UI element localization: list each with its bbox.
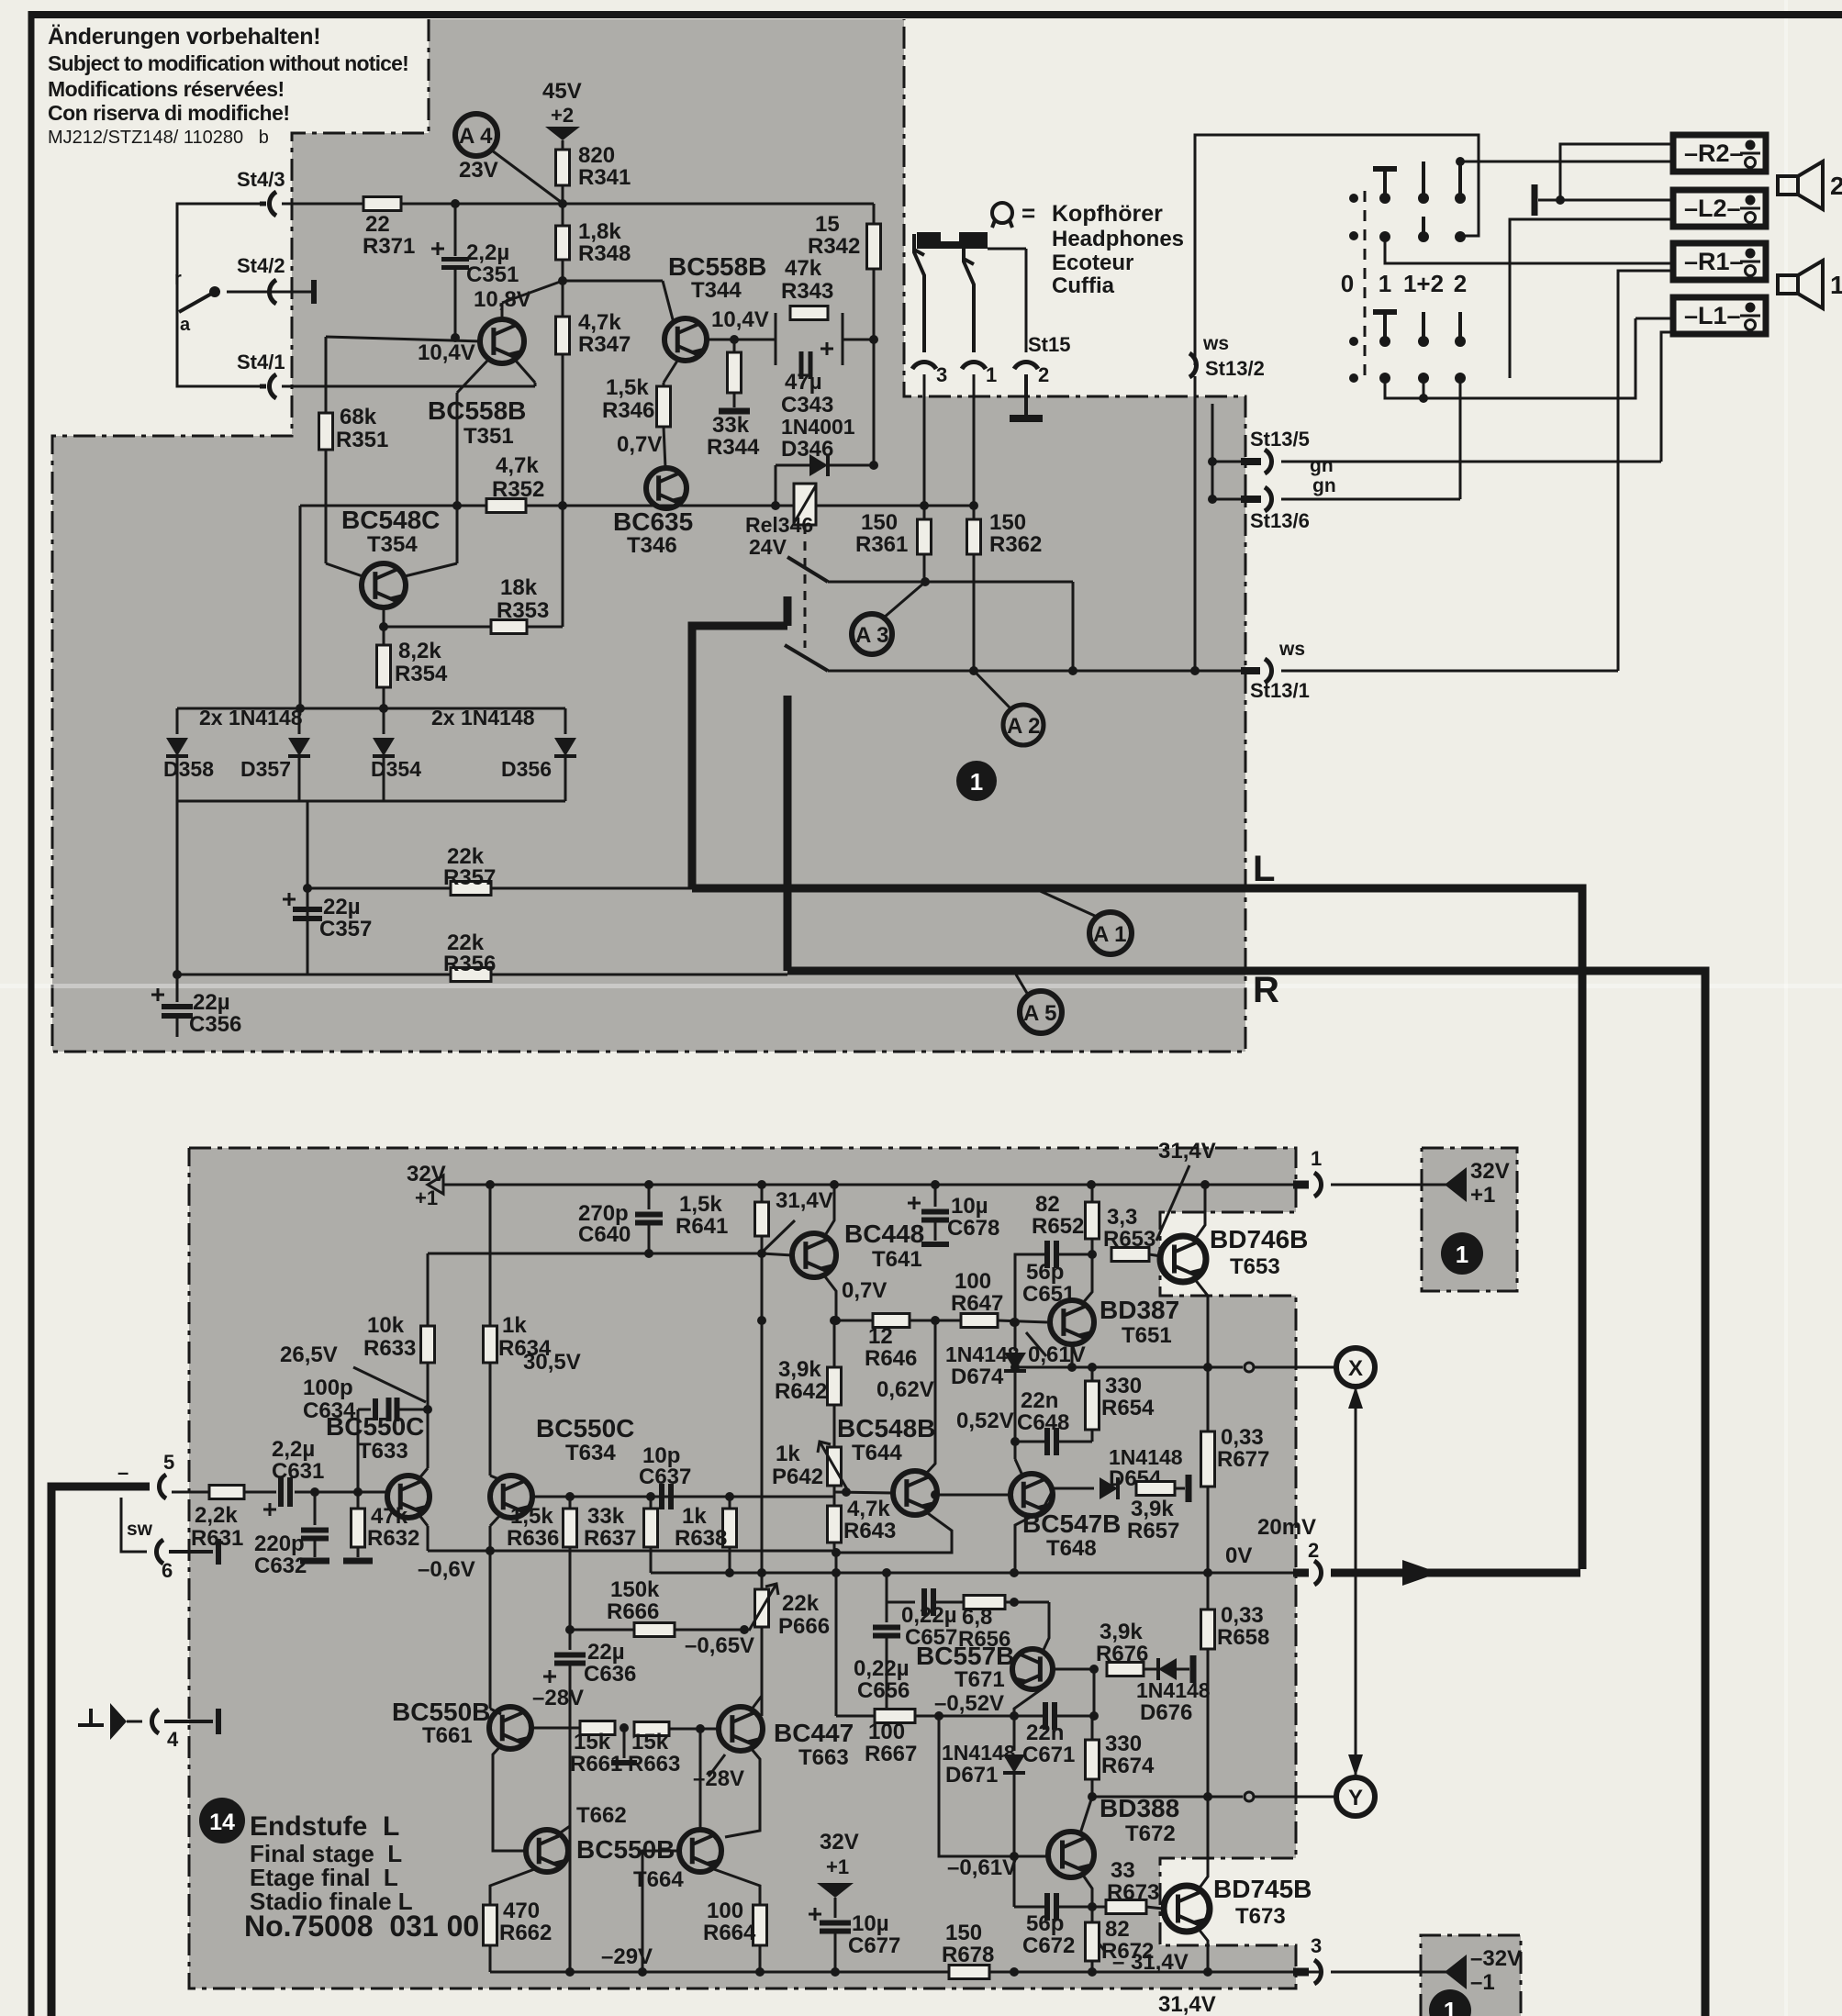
- svg-text:T644: T644: [852, 1441, 902, 1465]
- speaker terminal box L1: [1673, 297, 1766, 334]
- svg-text:3: 3: [1311, 1934, 1322, 1957]
- power tag -32V -1: [1445, 1955, 1467, 1989]
- connector 1 supply: [1314, 1173, 1322, 1197]
- ground input connector 4: [78, 1723, 104, 1727]
- svg-text:C637: C637: [639, 1465, 691, 1489]
- svg-text:31,4V: 31,4V: [1158, 1992, 1216, 2016]
- svg-text:R662: R662: [499, 1921, 552, 1945]
- svg-text:T663: T663: [798, 1745, 849, 1770]
- diode D674 1N4148: [1014, 1322, 1017, 1351]
- resistor R676 3,9k: [1107, 1663, 1144, 1676]
- wire ws bus to St13/1: [828, 670, 1246, 673]
- svg-text:R351: R351: [336, 428, 388, 452]
- svg-text:22n: 22n: [1026, 1721, 1064, 1745]
- wire R356 line 22k: [177, 974, 451, 976]
- wire emitter node down: [835, 1553, 838, 1716]
- svg-text:BC548C: BC548C: [341, 506, 440, 534]
- svg-text:T346: T346: [627, 533, 677, 558]
- svg-text:–29V: –29V: [601, 1944, 653, 1969]
- resistor R658 0,33: [1201, 1609, 1215, 1649]
- capacitor C636 22u: [569, 1630, 572, 1650]
- svg-text:St13/1: St13/1: [1250, 679, 1310, 702]
- svg-text:C351: C351: [466, 262, 519, 287]
- svg-text:R653: R653: [1103, 1227, 1155, 1252]
- svg-text:D356: D356: [501, 757, 552, 781]
- svg-text:St4/3: St4/3: [237, 168, 285, 191]
- wire T672 emitter: [1082, 1874, 1092, 1907]
- connector St13/1: [1241, 667, 1260, 674]
- svg-text:22k: 22k: [782, 1591, 820, 1616]
- resistor R341 820: [556, 150, 570, 185]
- svg-text:Kopfhörer: Kopfhörer: [1052, 201, 1163, 227]
- wire pin3 down to R361: [923, 374, 926, 506]
- wire T661 to R661: [531, 1727, 580, 1730]
- wire T351 emitter to St4/1 line: [515, 360, 535, 383]
- resistor R667 100: [875, 1710, 915, 1723]
- svg-text:St4/1: St4/1: [237, 351, 285, 373]
- wire R646 R647 line: [836, 1320, 873, 1322]
- svg-text:D354: D354: [371, 757, 421, 781]
- capacitor C677 10u: [820, 1921, 851, 1926]
- wire T648 collector: [1015, 1459, 1023, 1477]
- wire T673 emitter: [1198, 1928, 1208, 1972]
- wire T664 base: [642, 1851, 679, 1972]
- bottom amplifier panel background (Endstufe L): [189, 1148, 1296, 1988]
- wire R662 to -29V bus: [489, 1945, 492, 1972]
- svg-text:sw: sw: [127, 1519, 153, 1540]
- svg-text:R643: R643: [843, 1519, 896, 1543]
- transistor T634 BC550C: [490, 1476, 532, 1518]
- svg-text:C356: C356: [189, 1012, 241, 1037]
- transistor T651 BD387: [1050, 1300, 1094, 1344]
- test point circle on X line: [1245, 1363, 1254, 1372]
- resistor R342 15: [867, 224, 881, 269]
- svg-text:ws: ws: [1202, 333, 1229, 354]
- svg-text:R672: R672: [1101, 1939, 1154, 1964]
- wire switch bottom bank output: [1385, 318, 1635, 398]
- transistor T661 BC550B: [489, 1707, 531, 1749]
- svg-text:6,8: 6,8: [962, 1605, 992, 1630]
- svg-text:C636: C636: [584, 1662, 636, 1687]
- svg-text:T672: T672: [1125, 1821, 1176, 1846]
- thick L line horizontal: [692, 888, 1582, 1569]
- svg-text:St13/6: St13/6: [1250, 509, 1310, 532]
- wire R653 to T653 base: [1149, 1254, 1161, 1256]
- svg-text:–: –: [117, 1461, 128, 1484]
- wire R652 leads: [1091, 1185, 1094, 1202]
- svg-text:10µ: 10µ: [852, 1911, 889, 1936]
- svg-text:R356: R356: [443, 952, 496, 976]
- wire T351 emitter to top: [501, 303, 504, 319]
- svg-text:R633: R633: [363, 1336, 416, 1361]
- relay lower contact: [785, 645, 828, 671]
- connector 6: [156, 1540, 163, 1564]
- wire pin2 to ground: [1024, 374, 1028, 415]
- page border frame left: [28, 11, 35, 2016]
- svg-text:Modifications réservées!: Modifications réservées!: [48, 77, 285, 101]
- svg-text:10µ: 10µ: [951, 1194, 988, 1219]
- resistor R666 150k: [634, 1623, 675, 1637]
- page border frame top: [28, 11, 1842, 18]
- svg-text:St13/2: St13/2: [1205, 357, 1265, 380]
- resistor R653 3,3: [1111, 1248, 1149, 1262]
- wire C672 line: [1014, 1906, 1047, 1909]
- transistor T663 BC447: [719, 1707, 763, 1751]
- thick signal line from lower contact (R channel): [784, 696, 792, 971]
- transistor T641 BC448: [792, 1233, 836, 1277]
- transistor T633 BC550C: [387, 1476, 430, 1518]
- resistor R677 0,33: [1201, 1431, 1215, 1487]
- capacitor C657 0,22u in series: [921, 1588, 927, 1616]
- svg-text:BC447: BC447: [774, 1719, 854, 1747]
- svg-text:R642: R642: [775, 1379, 827, 1404]
- svg-text:BC558B: BC558B: [668, 252, 766, 281]
- svg-text:0,33: 0,33: [1221, 1425, 1264, 1450]
- wire T641 emitter: [824, 1275, 836, 1320]
- jack contact pin 1: [964, 249, 974, 352]
- svg-text:T651: T651: [1122, 1323, 1172, 1348]
- svg-text:10,4V: 10,4V: [711, 307, 769, 332]
- svg-text:P666: P666: [778, 1614, 830, 1639]
- connector St15 pin 2: [1014, 362, 1038, 369]
- wire C640 line to T641 base: [428, 1253, 762, 1255]
- wire pin1 down to R362: [973, 374, 976, 506]
- svg-text:1N4148: 1N4148: [1136, 1678, 1211, 1702]
- connector St15 pin 1: [962, 362, 986, 369]
- gray box -32V supply node: [1421, 1935, 1521, 2016]
- speaker common terminal bar: [1532, 184, 1538, 216]
- wire C651 left lead: [1015, 1254, 1047, 1322]
- svg-text:r: r: [174, 269, 182, 289]
- svg-text:470: 470: [503, 1899, 540, 1923]
- resistor R647 100: [961, 1314, 998, 1328]
- relay Rel346 coil box: [794, 484, 816, 525]
- svg-text:4,7k: 4,7k: [578, 310, 621, 335]
- resistor R643 4,7k: [828, 1506, 842, 1543]
- switch top bank col 1+2 stub: [1422, 162, 1425, 198]
- speaker icon 1: [1778, 275, 1798, 294]
- wire R642 leads: [833, 1320, 836, 1367]
- svg-text:–L1–: –L1–: [1684, 302, 1741, 329]
- svg-text:D346: D346: [781, 437, 833, 462]
- resistor R654 330: [1086, 1381, 1100, 1430]
- svg-text:R347: R347: [578, 332, 631, 357]
- switch bottom bank col 2 stub: [1458, 312, 1462, 341]
- wire jack line to St13/2: [1195, 135, 1479, 365]
- svg-text:R352: R352: [492, 477, 544, 502]
- svg-text:C343: C343: [781, 393, 833, 418]
- resistor R371 22: [363, 197, 401, 211]
- transistor T351 BC558B: [480, 319, 524, 363]
- svg-text:P642: P642: [772, 1465, 823, 1489]
- diode network rail bottom: [177, 800, 565, 803]
- wire common to L2: [1538, 199, 1673, 202]
- transistor T346 BC635: [646, 468, 687, 508]
- wire P642 to junction: [833, 1486, 836, 1492]
- wire diode rail to C356 column: [176, 801, 179, 975]
- svg-text:2x 1N4148: 2x 1N4148: [431, 706, 535, 730]
- wire R672 leads: [1091, 1907, 1094, 1922]
- svg-text:–28V: –28V: [532, 1686, 584, 1710]
- svg-text:68k: 68k: [340, 405, 377, 429]
- svg-text:100: 100: [954, 1269, 991, 1294]
- wire node down to D346 line: [873, 340, 876, 465]
- node A4 measuring point: [455, 114, 497, 156]
- wire L1 top feed: [1635, 317, 1673, 320]
- svg-text:1: 1: [1379, 270, 1391, 297]
- wire left loop St4/3-St4/1: [177, 204, 260, 386]
- resistor R633 10k: [421, 1326, 435, 1363]
- svg-text:23V: 23V: [459, 158, 498, 183]
- thick signal line from upper contact (L channel): [784, 596, 792, 626]
- svg-text:R371: R371: [363, 234, 415, 259]
- wire T653 collector: [1194, 1185, 1205, 1241]
- resistor R638 1k: [723, 1509, 737, 1547]
- svg-text:R632: R632: [367, 1526, 419, 1551]
- wire T354 base bracket: [326, 563, 363, 576]
- label Endstufe L block: [199, 1798, 245, 1843]
- svg-text:47k: 47k: [785, 256, 822, 281]
- wire T671 collector: [1043, 1602, 1049, 1652]
- svg-text:31,4V: 31,4V: [1158, 1139, 1216, 1164]
- wire T351 collector: [457, 359, 489, 393]
- wire T664 collector: [699, 1729, 702, 1830]
- svg-text:1: 1: [1444, 1997, 1457, 2016]
- capacitor C357 22u: [293, 907, 322, 912]
- svg-text:2,2k: 2,2k: [195, 1503, 238, 1528]
- capacitor C640 270p: [648, 1185, 651, 1209]
- wire C636 column to bus: [569, 1826, 572, 1972]
- wire T634 base line: [532, 1496, 835, 1498]
- svg-text:24V: 24V: [749, 535, 787, 559]
- resistor R652 82: [1086, 1202, 1100, 1239]
- svg-text:A 4: A 4: [459, 124, 493, 149]
- svg-text:R652: R652: [1032, 1214, 1084, 1239]
- wire relay to R361 node: [816, 505, 924, 507]
- svg-text:–R2–: –R2–: [1684, 139, 1744, 167]
- wire T644 collector to T648 base: [935, 1494, 1010, 1497]
- resistor R663 15k: [634, 1722, 669, 1736]
- headphones icon: [992, 203, 1012, 223]
- svg-text:12: 12: [868, 1324, 893, 1349]
- svg-text:3: 3: [936, 363, 947, 386]
- capacitor C634 100p: [357, 1409, 360, 1492]
- svg-text:3,9k: 3,9k: [1100, 1620, 1143, 1644]
- svg-text:R667: R667: [865, 1742, 917, 1766]
- wire St4/1 into panel: [282, 385, 535, 388]
- svg-text:2: 2: [1038, 363, 1049, 386]
- resistor R362 150: [967, 519, 981, 554]
- svg-text:22µ: 22µ: [587, 1640, 625, 1665]
- wire pointer A1: [1038, 890, 1097, 917]
- svg-text:–0,6V: –0,6V: [418, 1557, 475, 1582]
- transistor T671 BC557B: [1012, 1649, 1053, 1689]
- svg-text:15k: 15k: [574, 1730, 611, 1754]
- trimmer P666 22k: [761, 1573, 764, 1589]
- svg-text:C672: C672: [1022, 1933, 1075, 1958]
- wire T634 collector column: [489, 1185, 492, 1326]
- wire R351 leads: [325, 337, 328, 413]
- svg-text:St13/5: St13/5: [1250, 428, 1310, 451]
- wire C671 line: [1014, 1715, 1045, 1718]
- svg-text:32V: 32V: [407, 1162, 446, 1186]
- svg-text:MJ212/STZ148/ 110280 b: MJ212/STZ148/ 110280 b: [48, 128, 269, 148]
- wire L2 lower feed: [1510, 219, 1673, 378]
- svg-text:2,2µ: 2,2µ: [272, 1437, 315, 1462]
- transistor T673 BD745B: [1164, 1886, 1210, 1932]
- wire R637 leads: [650, 1497, 653, 1509]
- speaker terminal box R1: [1673, 243, 1766, 280]
- jack sleeve wire pin 2: [1025, 249, 1028, 352]
- svg-text:45V: 45V: [542, 79, 582, 104]
- wire T662 collector stub: [558, 1826, 570, 1834]
- wire R2 feed from col2: [1460, 161, 1673, 163]
- resistor R674 330: [1086, 1740, 1100, 1779]
- svg-text:BC557B: BC557B: [916, 1642, 1014, 1670]
- resistor R662 470: [484, 1905, 497, 1945]
- transistor T653 BD746B: [1160, 1236, 1206, 1282]
- svg-text:T351: T351: [463, 424, 514, 449]
- junction R661/R663 with stub: [620, 1723, 629, 1732]
- svg-text:2: 2: [1308, 1539, 1319, 1562]
- svg-text:56p: 56p: [1026, 1260, 1064, 1285]
- wire C357 column: [307, 801, 309, 975]
- node A1 measuring point: [1089, 912, 1132, 954]
- capacitor C632 220p: [314, 1492, 317, 1525]
- wire 45V feed: [562, 140, 564, 150]
- diode D356 1N4148: [564, 708, 567, 734]
- capacitor C678 10u: [934, 1185, 937, 1207]
- svg-text:Endstufe L: Endstufe L: [250, 1811, 399, 1842]
- wire T634 emitter: [490, 1514, 501, 1526]
- svg-text:R666: R666: [607, 1599, 659, 1624]
- svg-text:1,5k: 1,5k: [510, 1504, 553, 1529]
- headphone jack body bar: [917, 232, 988, 249]
- svg-text:R677: R677: [1217, 1447, 1269, 1472]
- svg-text:ws: ws: [1278, 639, 1305, 660]
- capacitor C343 47u: [799, 351, 804, 379]
- svg-text:C631: C631: [272, 1459, 324, 1484]
- svg-text:+1: +1: [1470, 1183, 1495, 1208]
- wire T344 emitter node: [707, 339, 776, 341]
- transistor T354 BC548C: [362, 563, 406, 607]
- svg-text:Cuffia: Cuffia: [1052, 273, 1115, 298]
- node X terminal: [1336, 1348, 1375, 1387]
- capacitor C356 22u: [176, 975, 179, 1002]
- svg-text:3,9k: 3,9k: [1131, 1497, 1174, 1521]
- power tag +32V +1: [1445, 1167, 1467, 1202]
- wire main 45V bus: [282, 203, 874, 206]
- svg-text:Ecoteur: Ecoteur: [1052, 251, 1133, 275]
- wire Y line: [1092, 1796, 1243, 1799]
- svg-text:20mV: 20mV: [1257, 1515, 1316, 1540]
- svg-text:A 1: A 1: [1093, 922, 1126, 947]
- resistor R361 150: [918, 519, 932, 554]
- diode D671 1N4148: [1003, 1754, 1025, 1773]
- transistor T664 BC550B: [679, 1830, 721, 1872]
- svg-text:100: 100: [707, 1899, 743, 1923]
- svg-text:Subject to modification withou: Subject to modification without notice!: [48, 51, 408, 75]
- svg-text:1N4148: 1N4148: [945, 1342, 1020, 1366]
- wire C648 line 0,52V: [1015, 1441, 1047, 1443]
- svg-text:1k: 1k: [682, 1504, 707, 1529]
- svg-text:BC550C: BC550C: [536, 1414, 634, 1442]
- diode D654 1N4148: [1100, 1477, 1118, 1499]
- svg-text:T633: T633: [358, 1439, 408, 1464]
- transistor T672 BD388: [1048, 1832, 1094, 1877]
- svg-text:D671: D671: [945, 1763, 998, 1788]
- wire R667 line 0,52V lower: [836, 1715, 875, 1718]
- svg-text:2x 1N4148: 2x 1N4148: [199, 706, 303, 730]
- connector 3 output: [1314, 1960, 1322, 1984]
- svg-text:T664: T664: [633, 1867, 684, 1892]
- svg-text:150: 150: [861, 510, 898, 535]
- svg-text:R674: R674: [1101, 1754, 1155, 1778]
- diode network rail top: [177, 707, 565, 710]
- svg-text:10,4V: 10,4V: [418, 340, 475, 365]
- wire L1 bottom feed: [1661, 332, 1673, 462]
- marker 1 top panel: [956, 761, 997, 801]
- svg-text:R354: R354: [395, 662, 448, 686]
- wire T671 emitter: [1014, 1688, 1043, 1716]
- wire St4/2 stub: [227, 291, 260, 294]
- svg-text:15k: 15k: [631, 1730, 669, 1754]
- wire T663 collector up: [751, 1696, 762, 1710]
- wire pointer A2: [976, 673, 1010, 707]
- svg-text:0,22µ: 0,22µ: [854, 1656, 910, 1681]
- connector St13/5: [1212, 461, 1241, 463]
- wire R643 leads: [833, 1492, 836, 1506]
- capacitor C671 22n: [1043, 1702, 1048, 1730]
- svg-text:A 2: A 2: [1007, 714, 1040, 739]
- transistor T648 BC547B: [1010, 1474, 1053, 1516]
- switch bottom bank row B contacts: [1379, 373, 1390, 384]
- wire R641 leads: [761, 1185, 764, 1202]
- wire C657 R656 branch: [887, 1573, 915, 1602]
- top panel dash-dot border: [52, 19, 1245, 1052]
- wire St4/3 stub: [211, 203, 260, 206]
- svg-text:X: X: [1348, 1356, 1363, 1381]
- wire R634 to T634: [489, 1363, 492, 1476]
- wire bus to connector 3: [1293, 1968, 1309, 1977]
- svg-text:BC548B: BC548B: [837, 1414, 935, 1442]
- svg-text:47µ: 47µ: [785, 370, 822, 395]
- wire X line 0,61V node: [1015, 1366, 1243, 1369]
- wire T648 emitter and D654 line: [1042, 1488, 1054, 1511]
- connector St13/2: [1189, 353, 1197, 377]
- shield bracket sw: [121, 1498, 147, 1552]
- svg-text:8,2k: 8,2k: [398, 639, 441, 663]
- svg-text:2: 2: [1830, 172, 1842, 200]
- svg-text:+2: +2: [551, 104, 574, 127]
- svg-text:D676: D676: [1140, 1700, 1192, 1725]
- svg-text:–32V: –32V: [1470, 1946, 1522, 1971]
- resistor R632 47k: [352, 1509, 365, 1547]
- wire T653 emitter: [1194, 1278, 1208, 1365]
- svg-text:R357: R357: [443, 865, 496, 890]
- svg-text:C632: C632: [254, 1554, 307, 1578]
- wire D671 column: [1013, 1716, 1016, 1751]
- switch lever a/r: [209, 286, 220, 297]
- svg-text:–R1–: –R1–: [1684, 248, 1744, 275]
- svg-text:1: 1: [970, 768, 983, 796]
- svg-text:33: 33: [1111, 1858, 1135, 1883]
- wire R342 bottom: [873, 269, 876, 340]
- junction dots on 45V bus: [451, 199, 460, 208]
- svg-text:A 3: A 3: [855, 623, 888, 648]
- wire gn to L1 via right column: [1281, 461, 1661, 463]
- wire P666 column down: [761, 1627, 764, 1716]
